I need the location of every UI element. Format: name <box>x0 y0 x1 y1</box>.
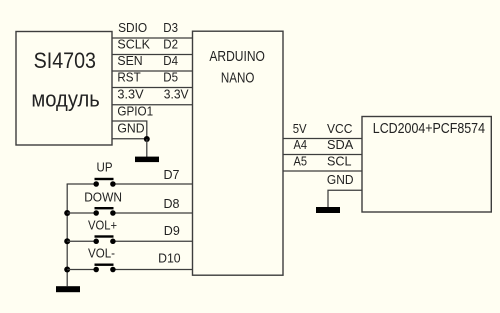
svg-text:SCLK: SCLK <box>117 37 150 52</box>
wire D7 left <box>67 183 97 185</box>
svg-text:3.3V: 3.3V <box>117 87 143 102</box>
wire SEN-D4 <box>112 70 193 72</box>
wire GND <box>112 138 147 140</box>
button SW3 VOL+ <box>93 235 115 244</box>
svg-text:SDA: SDA <box>327 137 353 152</box>
svg-text:NANO: NANO <box>221 71 255 87</box>
ground symbol 2 <box>316 207 340 213</box>
wire SDIO-D3 <box>112 37 193 39</box>
junction bus-D10 <box>64 267 70 273</box>
junction GND node <box>144 136 150 142</box>
button SW2 DOWN <box>93 207 115 216</box>
wire ground bus <box>66 184 68 286</box>
button SW4 VOL- <box>93 264 115 273</box>
wire GPIO1 <box>112 121 147 139</box>
ground symbol 3 <box>56 286 80 292</box>
svg-text:SCL: SCL <box>327 154 352 169</box>
wire LCD GND <box>328 190 362 207</box>
svg-text:модуль: модуль <box>31 86 99 111</box>
svg-text:DOWN: DOWN <box>84 189 122 204</box>
button SW1 UP <box>93 178 115 187</box>
svg-text:D10: D10 <box>158 250 181 265</box>
svg-text:GPIO1: GPIO1 <box>117 103 153 118</box>
wire D10 left <box>67 269 96 271</box>
svg-text:D5: D5 <box>163 70 178 85</box>
svg-text:D9: D9 <box>164 223 180 238</box>
svg-text:VOL-: VOL- <box>88 246 115 261</box>
wire SCLK-D2 <box>112 54 193 56</box>
wire A5-SCL <box>283 170 362 172</box>
wire to ground 1 <box>146 139 148 157</box>
svg-text:UP: UP <box>97 160 113 175</box>
wire D8 left <box>67 212 96 214</box>
svg-text:3.3V: 3.3V <box>164 87 189 102</box>
svg-text:SDIO: SDIO <box>118 20 147 35</box>
junction bus-D9 <box>64 238 70 244</box>
wire D9 right <box>113 240 193 242</box>
wire D7 right <box>113 183 193 185</box>
svg-text:GND: GND <box>327 172 354 187</box>
junction bus-D8 <box>64 210 70 216</box>
svg-text:VCC: VCC <box>327 121 353 136</box>
svg-text:D7: D7 <box>164 167 180 182</box>
lcd U3 LCD2004+PCF8574 box <box>362 117 491 213</box>
svg-text:A5: A5 <box>294 154 308 169</box>
svg-text:5V: 5V <box>293 121 307 136</box>
svg-text:SI4703: SI4703 <box>34 48 96 73</box>
wire RST-D5 <box>112 87 193 89</box>
svg-text:D4: D4 <box>163 53 178 68</box>
svg-text:RST: RST <box>117 70 140 85</box>
svg-text:D8: D8 <box>164 196 180 211</box>
svg-text:LCD2004+PCF8574: LCD2004+PCF8574 <box>373 121 485 137</box>
svg-text:D2: D2 <box>163 37 178 52</box>
op-amp U2 ARDUINO NANO box <box>193 31 284 275</box>
svg-text:SEN: SEN <box>117 53 142 68</box>
wire D9 left <box>67 240 96 242</box>
ground symbol 1 <box>135 157 159 163</box>
module U1 SI4703 box <box>16 32 112 146</box>
svg-text:GND: GND <box>117 121 144 136</box>
wire D8 right <box>113 212 193 214</box>
svg-text:ARDUINO: ARDUINO <box>209 49 265 65</box>
wire 3.3V net <box>112 104 193 106</box>
wire 5V-VCC <box>283 138 362 140</box>
wire D10 right <box>113 269 193 271</box>
svg-text:A4: A4 <box>294 137 308 152</box>
svg-text:D3: D3 <box>163 20 178 35</box>
svg-text:VOL+: VOL+ <box>88 217 117 232</box>
wire A4-SDA <box>283 154 362 156</box>
